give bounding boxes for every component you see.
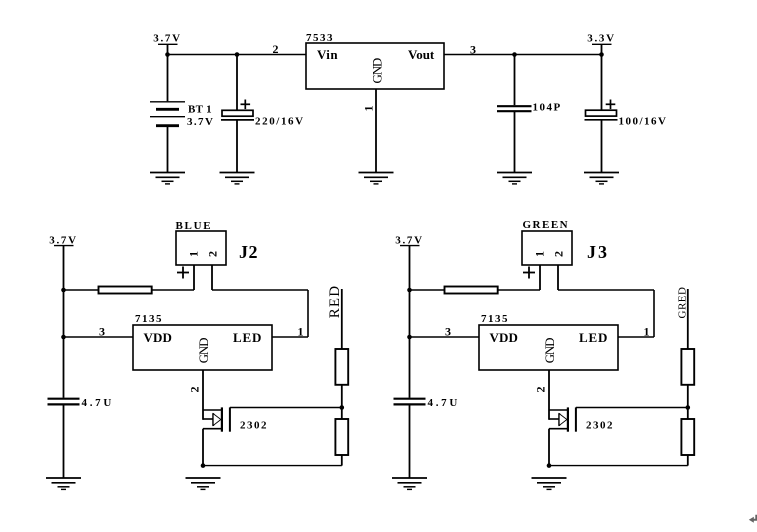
ground: U1 pin 1	[359, 173, 394, 184]
polarity mark + (J2)	[177, 267, 189, 279]
svg-text:RED: RED	[327, 285, 343, 319]
node GRED: PWM input stub	[676, 287, 688, 349]
op-amp U1 7533 regulator body	[306, 32, 444, 89]
wire: rail to VDD pin 3	[64, 336, 134, 338]
svg-text:2: 2	[534, 387, 548, 393]
svg-text:2: 2	[206, 251, 220, 257]
node: 3.3V rail junction	[599, 52, 604, 57]
svg-text:3.7V: 3.7V	[153, 33, 182, 45]
svg-text:3: 3	[99, 325, 105, 339]
resistor: series J2 feed	[99, 287, 152, 294]
capacitor C2 104P	[497, 55, 562, 173]
wire: 3.7V rail (J3 section)	[409, 246, 411, 398]
connector J2 (BLUE)	[176, 220, 259, 265]
svg-text:7533: 7533	[306, 32, 334, 44]
svg-text:3.7V: 3.7V	[395, 235, 424, 247]
wire: 7135 pin 2 to transistor drain	[202, 370, 204, 420]
wire: J3 pin 2 stub	[557, 265, 559, 290]
battery BT1	[150, 55, 214, 173]
ground: capacitor C3	[584, 173, 619, 184]
svg-text:3.7V: 3.7V	[49, 235, 78, 247]
svg-text:3: 3	[445, 325, 451, 339]
wire: pulldown resistor to ground return	[341, 455, 343, 466]
wire: resistor to J2 pin 1	[152, 289, 194, 291]
svg-text:104P: 104P	[533, 101, 562, 113]
node: resistor feed junction (J3 section)	[407, 288, 412, 293]
svg-text:GREEN: GREEN	[523, 219, 570, 231]
svg-text:7135: 7135	[481, 313, 509, 325]
node: battery tap junction	[165, 52, 170, 57]
power rail 3.7V	[153, 33, 182, 55]
capacitor 4.7U (J2 section)	[48, 397, 115, 478]
svg-text:BLUE: BLUE	[176, 220, 213, 232]
ground: transistor source (J2 section)	[186, 478, 221, 489]
wire: bottom ground return	[549, 465, 688, 467]
svg-text:Vin: Vin	[317, 47, 338, 62]
node RED: PWM input stub	[327, 285, 343, 349]
resistor: gate pulldown (J3 section)	[681, 419, 694, 455]
svg-text:GND: GND	[542, 338, 557, 363]
wire: bottom ground return	[203, 465, 342, 467]
resistor: gate series (J3 section)	[681, 349, 694, 385]
svg-text:4.7U: 4.7U	[428, 397, 461, 409]
svg-text:GND: GND	[196, 338, 211, 363]
wire: transistor source to ground rail	[202, 429, 204, 466]
ground: battery BT1	[150, 173, 185, 184]
wire: J3 pin 2 to LED pin	[558, 290, 654, 337]
svg-text:BT 1: BT 1	[188, 104, 212, 116]
word-processor paragraph return mark	[749, 515, 757, 523]
wire: transistor gate to divider	[230, 407, 342, 409]
power rail 3.7V	[49, 235, 78, 247]
wire: series resistor to gate node	[687, 385, 689, 419]
node: VDD feed junction (J3 section)	[407, 335, 412, 340]
node: resistor feed junction (J2 section)	[61, 288, 66, 293]
wire: 3.7V rail to U1 Vin	[168, 54, 307, 56]
wire: J2 pin 1 stub	[193, 265, 195, 290]
ground: transistor source (J3 section)	[532, 478, 567, 489]
capacitor 4.7U (J3 section)	[394, 397, 461, 478]
wire: U1 Vout to 3.3V rail	[444, 54, 602, 56]
wire: J3 pin 1 stub	[539, 265, 541, 290]
svg-text:VDD: VDD	[490, 330, 518, 345]
wire: J2 pin 2 stub	[211, 265, 213, 290]
wire: transistor gate to divider	[576, 407, 688, 409]
svg-text:3.7V: 3.7V	[187, 116, 214, 128]
node: source/ground junction	[547, 463, 552, 468]
svg-text:1: 1	[298, 325, 304, 339]
polarity mark + (J3)	[523, 267, 535, 279]
svg-text:3: 3	[470, 43, 476, 57]
wire: rail to resistor (J3 section)	[410, 289, 446, 291]
svg-text:3.3V: 3.3V	[587, 33, 616, 45]
wire: pulldown resistor to ground return	[687, 455, 689, 466]
ground: capacitor C1	[220, 173, 255, 184]
wire: U1 pin 1 to ground	[375, 89, 377, 173]
wire: J2 pin 2 to LED pin	[212, 290, 308, 337]
ground: capacitor C2	[497, 173, 532, 184]
op-amp U 7135 current regulator body	[479, 313, 618, 370]
capacitor C3 100/16V (polarized)	[585, 55, 668, 173]
ground: 3.7V rail (J3 section)	[392, 478, 427, 489]
svg-text:GND: GND	[369, 58, 384, 83]
svg-text:2: 2	[552, 251, 566, 257]
svg-text:220/16V: 220/16V	[255, 116, 305, 128]
power rail 3.7V	[395, 235, 424, 247]
wire: 7135 pin 2 to transistor drain	[548, 370, 550, 420]
ground: 3.7V rail (J2 section)	[46, 478, 81, 489]
node: C1 tap junction	[235, 52, 240, 57]
svg-text:Vout: Vout	[408, 47, 435, 62]
wire: 3.7V rail (J2 section)	[63, 246, 65, 398]
wire: series resistor to gate node	[341, 385, 343, 419]
svg-text:2: 2	[273, 42, 279, 56]
wire: transistor source to ground rail	[548, 429, 550, 466]
capacitor C1 220/16V (polarized)	[221, 55, 305, 173]
transistor Q 2302 N-MOSFET	[549, 407, 614, 431]
svg-text:J3: J3	[587, 242, 609, 262]
svg-text:GRED: GRED	[676, 287, 688, 319]
resistor: gate series (J2 section)	[335, 349, 348, 385]
svg-text:LED: LED	[579, 330, 608, 345]
power rail 3.3V	[587, 33, 616, 55]
svg-text:1: 1	[644, 325, 650, 339]
connector J3 (GREEN)	[522, 219, 609, 265]
node: gate divider junction	[686, 405, 691, 410]
svg-text:7135: 7135	[135, 313, 163, 325]
resistor: gate pulldown (J2 section)	[335, 419, 348, 455]
node: VDD feed junction (J2 section)	[61, 335, 66, 340]
wire: rail to resistor (J2 section)	[64, 289, 100, 291]
svg-text:LED: LED	[233, 330, 262, 345]
node: gate divider junction	[340, 405, 345, 410]
svg-text:2: 2	[188, 387, 202, 393]
svg-text:100/16V: 100/16V	[619, 116, 668, 128]
resistor: series J3 feed	[445, 287, 498, 294]
svg-text:1: 1	[533, 251, 547, 257]
svg-text:J2: J2	[239, 242, 258, 262]
svg-text:VDD: VDD	[144, 330, 172, 345]
wire: rail to VDD pin 3	[410, 336, 480, 338]
node: source/ground junction	[201, 463, 206, 468]
svg-text:2302: 2302	[586, 419, 614, 431]
wire: resistor to J3 pin 1	[498, 289, 540, 291]
node: C2 tap junction	[512, 52, 517, 57]
svg-text:2302: 2302	[240, 419, 268, 431]
svg-text:4.7U: 4.7U	[82, 397, 115, 409]
transistor Q 2302 N-MOSFET	[203, 407, 268, 431]
svg-text:1: 1	[187, 251, 201, 257]
op-amp U 7135 current regulator body	[133, 313, 272, 370]
svg-text:1: 1	[361, 106, 375, 112]
